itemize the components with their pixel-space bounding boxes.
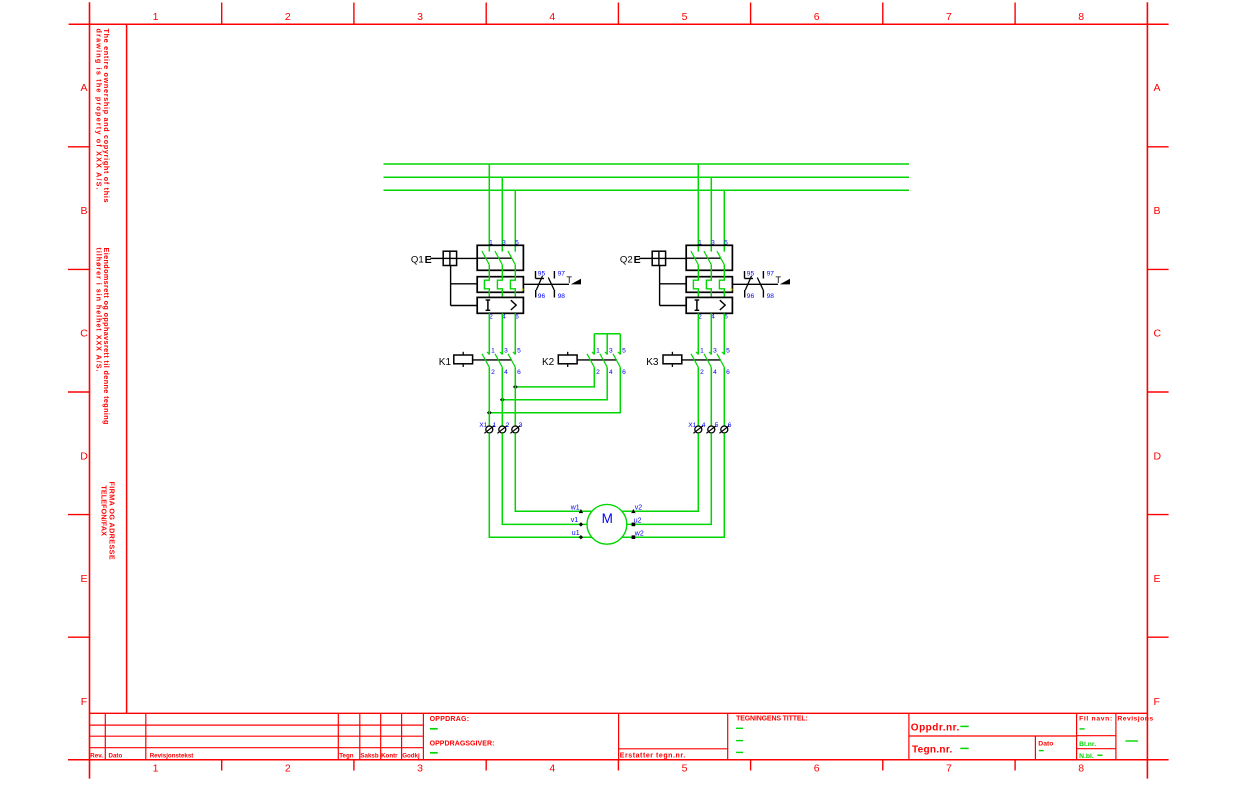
- title block: oppdrag value dash: [430, 728, 438, 730]
- frame: bottom ruler tick 3: [485, 760, 487, 771]
- wire: K2 top lead 1: [593, 334, 595, 355]
- wire: K3 bottom lead: [710, 367, 712, 426]
- breaker Q1 pole blade 3: [508, 251, 515, 265]
- svg-text:E: E: [425, 254, 432, 266]
- svg-text:3: 3: [417, 11, 423, 23]
- title block: bl.nr cell line: [1077, 735, 1116, 737]
- breaker Q2 main contact box: [686, 245, 732, 270]
- svg-text:D: D: [1154, 451, 1162, 463]
- contactor K3 contact 3-4 fixed tick: [709, 352, 711, 354]
- contactor K2 contact 1-2 blade: [587, 354, 594, 367]
- motor node v2: [631, 509, 635, 513]
- magnetic trip unit Q2 symbol I: [696, 300, 698, 310]
- breaker Q2 pole blade 2: [704, 251, 711, 265]
- svg-text:98: 98: [767, 293, 775, 300]
- svg-text:tilhører i sin helhet XXX A/S.: tilhører i sin helhet XXX A/S.: [94, 248, 103, 373]
- magnetic trip unit Q1 symbol >: [511, 300, 516, 310]
- contactor K1 contact 5-6 blade: [508, 354, 515, 367]
- wire: X1:4 to motor v2: [622, 433, 698, 511]
- contactor K1 contact 3-4 fixed tick: [500, 352, 502, 354]
- motor node w1: [579, 509, 583, 513]
- svg-text:Kontr: Kontr: [381, 752, 398, 759]
- svg-text:4: 4: [504, 369, 508, 376]
- svg-text:Q1: Q1: [411, 254, 424, 265]
- wire: K3 bottom lead: [697, 367, 699, 426]
- breaker Q2 trip bar: [686, 257, 721, 259]
- aux contact Q1 98 lead: [553, 290, 555, 298]
- svg-text:v2: v2: [635, 504, 643, 511]
- title block: n.bl value dash: [1097, 754, 1102, 756]
- svg-text:Tegn.nr.: Tegn.nr.: [912, 745, 953, 756]
- svg-text:A: A: [80, 82, 87, 94]
- breaker Q2 pole blade 1: [691, 251, 698, 265]
- breaker Q1 mechanism cross: [449, 251, 451, 265]
- wire: X1:5 to motor u2: [627, 433, 712, 524]
- title block: revision table column line 3: [337, 713, 339, 760]
- contactor K3 coil tick bottom: [671, 364, 673, 367]
- wire: Q2 aux contact line: [732, 283, 778, 285]
- wire: Q1 drop L2: [501, 177, 503, 251]
- svg-text:97: 97: [767, 271, 775, 278]
- svg-text:97: 97: [558, 271, 566, 278]
- svg-text:2: 2: [491, 369, 495, 376]
- title block: dato value dash: [1039, 750, 1044, 752]
- frame: left ruler tick 1: [68, 146, 90, 148]
- wire: K2 star bridge bus: [594, 333, 620, 335]
- svg-text:3: 3: [609, 348, 613, 355]
- magnetic trip unit Q2 symbol >: [720, 300, 725, 310]
- wire: X1:3 to motor w1: [515, 433, 591, 511]
- title block: tegn.nr value dash: [960, 747, 968, 749]
- motor node w2: [632, 535, 636, 539]
- wire: K3 top leads from Q2: [697, 313, 699, 354]
- frame: left ruler tick 4: [68, 514, 90, 516]
- svg-text:3: 3: [502, 239, 506, 246]
- wire: Q2 trip link to overload: [660, 283, 687, 285]
- svg-text:Godkj: Godkj: [402, 752, 420, 759]
- contactor K1 coil tick top: [462, 352, 464, 355]
- contactor K2 contact 5-6 blade: [613, 354, 620, 367]
- title block: revision table column line 4: [359, 713, 361, 760]
- svg-text:TELEFON/FAX: TELEFON/FAX: [100, 485, 109, 536]
- contactor K3 coil tick top: [671, 352, 673, 355]
- svg-text:T: T: [776, 275, 782, 285]
- contactor K1 contact 3-4 blade: [495, 354, 502, 367]
- svg-text:F: F: [1154, 696, 1160, 708]
- contactor K3 coil: [663, 355, 682, 364]
- title block: revision table column line 7: [422, 713, 424, 760]
- title block: dato cell divider: [1034, 736, 1036, 760]
- motor M1 circle: [587, 504, 627, 544]
- svg-text:T: T: [567, 275, 573, 285]
- wire: X1:2 to motor v1: [502, 433, 587, 524]
- svg-text:4: 4: [702, 422, 706, 429]
- svg-text:2: 2: [700, 369, 704, 376]
- motor node u1: [579, 535, 583, 539]
- frame: bottom ruler tick 7: [1014, 760, 1016, 771]
- svg-text:96: 96: [538, 293, 546, 300]
- contactor K1 linkage: [473, 359, 512, 361]
- svg-text:Q2: Q2: [620, 254, 633, 265]
- svg-text:C: C: [80, 328, 88, 340]
- svg-text:8: 8: [1078, 763, 1084, 775]
- breaker Q1 trip bar: [477, 257, 512, 259]
- svg-text:8: 8: [1078, 11, 1084, 23]
- svg-text:5: 5: [517, 348, 521, 355]
- bus L1: [384, 163, 910, 165]
- breaker Q2 mechanism box: [652, 251, 665, 265]
- svg-text:w2: w2: [634, 531, 644, 538]
- title block: oppdr.nr value dash: [960, 725, 968, 727]
- svg-text:1: 1: [596, 348, 600, 355]
- title block: oppdragsgiver value dash: [430, 752, 438, 754]
- wire: X1:1 to motor u1: [489, 433, 591, 537]
- title block: erstatter cell line: [619, 748, 728, 750]
- svg-text:w1: w1: [570, 504, 580, 511]
- svg-text:5: 5: [515, 239, 519, 246]
- svg-text:95: 95: [538, 271, 546, 278]
- title block: n.bl cell line: [1077, 748, 1116, 750]
- svg-text:TEGNINGENS TITTEL:: TEGNINGENS TITTEL:: [736, 716, 808, 723]
- svg-text:K2: K2: [542, 357, 555, 368]
- svg-text:7: 7: [946, 11, 952, 23]
- frame: right ruler tick 3: [1147, 391, 1168, 393]
- contactor K2 coil tick bottom: [567, 364, 569, 367]
- svg-text:1: 1: [700, 348, 704, 355]
- contactor K3 contact 5-6 blade: [717, 354, 724, 367]
- svg-text:5: 5: [715, 422, 719, 429]
- wire: Q1 actuator to mechanism: [430, 257, 443, 259]
- svg-text:K3: K3: [646, 357, 659, 368]
- svg-text:E: E: [1154, 573, 1161, 585]
- title block: revisjons value dash: [1126, 740, 1138, 742]
- svg-text:5: 5: [726, 348, 730, 355]
- breaker Q1 pole blade 1: [482, 251, 489, 265]
- frame: bottom ruler tick 4: [617, 760, 619, 771]
- aux contact Q2 95-96 blade: [745, 276, 751, 290]
- wire: K2 top lead 5: [619, 334, 621, 355]
- title block: revision table column line 2: [145, 713, 147, 760]
- svg-text:98: 98: [558, 293, 566, 300]
- title block: tittel dash 1: [736, 727, 743, 729]
- contactor K1 coil tick bottom: [462, 364, 464, 367]
- frame: right ruler tick 2: [1147, 268, 1168, 270]
- contactor K3 contact 1-2 blade: [691, 354, 698, 367]
- overload relay Q1 heater element 3: [510, 265, 515, 298]
- aux contact Q1 96 lead: [535, 290, 537, 298]
- svg-text:2: 2: [285, 763, 291, 775]
- wire: K1 bottom lead: [514, 367, 516, 426]
- contactor K3 contact 1-2 fixed tick: [696, 352, 698, 354]
- svg-text:4: 4: [609, 369, 613, 376]
- wire: Q2 trip link to magnetic unit: [660, 305, 687, 307]
- overload relay Q2 heater element 2: [706, 265, 711, 298]
- svg-text:1: 1: [493, 422, 497, 429]
- frame: top ruler tick 5: [750, 3, 752, 25]
- frame: right ruler line: [1146, 2, 1148, 778]
- svg-text:6: 6: [814, 763, 820, 775]
- svg-text:3: 3: [417, 763, 423, 775]
- terminal X1:3: [512, 426, 519, 433]
- svg-text:1: 1: [698, 239, 702, 246]
- svg-text:1: 1: [153, 763, 159, 775]
- wire: X1:6 to motor w2: [622, 433, 724, 537]
- breaker Q1 mechanism box: [443, 251, 456, 265]
- svg-text:5: 5: [622, 348, 626, 355]
- terminal X1:4: [695, 426, 702, 433]
- svg-text:OPPDRAG:: OPPDRAG:: [430, 716, 470, 723]
- wire: K1 bottom lead: [488, 367, 490, 426]
- svg-text:Fil navn:: Fil navn:: [1079, 715, 1113, 722]
- magnetic trip unit Q1 symbol I: [487, 300, 489, 310]
- svg-text:6: 6: [622, 369, 626, 376]
- wire: Q2 drop L3: [723, 190, 725, 251]
- frame: bottom ruler line: [68, 759, 1169, 761]
- junction dot B: [500, 397, 505, 402]
- contactor K2 contact 1-2 fixed tick: [592, 352, 594, 354]
- contactor K3 linkage: [682, 359, 721, 361]
- contactor K2 contact 5-6 fixed tick: [618, 352, 620, 354]
- svg-text:Bl.nr.: Bl.nr.: [1079, 741, 1096, 748]
- terminal X1:5: [708, 426, 715, 433]
- title block: tittel cell divider: [727, 713, 729, 760]
- frame: top ruler line: [69, 23, 1169, 25]
- wire: K2 top lead 3: [606, 334, 608, 355]
- wire: Q1 mechanism to main box: [457, 257, 478, 259]
- contactor K1 coil: [454, 355, 473, 364]
- frame: right ruler tick 4: [1147, 514, 1168, 516]
- terminal X1:6: [721, 426, 728, 433]
- aux contact Q1 97 lead: [553, 271, 555, 279]
- frame: left ruler tick 3: [68, 391, 90, 393]
- trip indicator Q2 wedge: [780, 279, 790, 285]
- svg-text:Dato: Dato: [109, 752, 123, 759]
- junction dot C: [487, 410, 492, 415]
- bus L3: [384, 189, 910, 191]
- svg-text:C: C: [1154, 328, 1162, 340]
- svg-text:2: 2: [596, 369, 600, 376]
- wire: Q1 drop L3: [514, 190, 516, 251]
- contactor K2 contact 3-4 fixed tick: [605, 352, 607, 354]
- contactor K1 contact 1-2 blade: [482, 354, 489, 367]
- wire: Q2 drop L2: [710, 177, 712, 251]
- svg-text:3: 3: [713, 348, 717, 355]
- svg-text:Oppdr.nr.: Oppdr.nr.: [911, 722, 960, 733]
- contactor K2 linkage: [577, 359, 617, 361]
- overload relay Q2 point mark: [730, 289, 732, 291]
- svg-text:v1: v1: [571, 517, 579, 524]
- wire: Q1 drop L1: [488, 164, 490, 252]
- contactor K3 contact 3-4 blade: [704, 354, 711, 367]
- svg-text:OPPDRAGSGIVER:: OPPDRAGSGIVER:: [430, 740, 495, 747]
- svg-text:Erstatter tegn.nr.: Erstatter tegn.nr.: [620, 752, 686, 759]
- overload relay Q1 thermal box: [477, 277, 523, 293]
- wire: Q1 trip link to overload: [451, 283, 478, 285]
- terminal X1:2: [499, 426, 506, 433]
- title block: revision table column line 5: [380, 713, 382, 760]
- svg-text:6: 6: [726, 369, 730, 376]
- svg-text:5: 5: [724, 239, 728, 246]
- svg-text:Saksb: Saksb: [360, 752, 378, 759]
- contactor K2 contact 3-4 blade: [600, 354, 607, 367]
- breaker Q2 mechanism cross: [658, 251, 660, 265]
- svg-text:96: 96: [747, 293, 755, 300]
- svg-text:N.bl.: N.bl.: [1079, 753, 1094, 760]
- aux contact Q2 98 lead: [762, 290, 764, 298]
- svg-text:95: 95: [747, 271, 755, 278]
- frame: bottom ruler tick 1: [221, 760, 223, 771]
- contactor K2 coil tick top: [567, 352, 569, 355]
- svg-text:3: 3: [711, 239, 715, 246]
- aux contact Q1 95 lead: [535, 271, 537, 279]
- svg-text:7: 7: [946, 763, 952, 775]
- svg-text:A: A: [1154, 82, 1161, 94]
- title block: fil navn cell divider: [1076, 713, 1078, 760]
- motor node v1: [579, 522, 583, 526]
- frame: bottom ruler tick 6: [882, 760, 884, 771]
- aux contact Q2 95 lead: [744, 271, 746, 279]
- aux contact Q2 97-98 blade: [757, 278, 763, 291]
- aux contact Q1 95-96 blade: [536, 276, 542, 290]
- wire: jumper K1-3 to K2-4: [502, 367, 607, 400]
- overload relay Q1 point mark: [521, 289, 523, 291]
- title block: revision table row line 3: [89, 747, 423, 749]
- wire: K1 bottom lead: [501, 367, 503, 426]
- magnetic trip unit Q2 box I>: [686, 297, 732, 313]
- svg-text:1: 1: [489, 239, 493, 246]
- breaker Q1 pole blade 2: [495, 251, 502, 265]
- aux contact Q2 96 lead: [744, 290, 746, 298]
- svg-text:Revisjons: Revisjons: [1117, 715, 1153, 722]
- svg-text:M: M: [602, 511, 613, 526]
- svg-text:1: 1: [153, 11, 159, 23]
- svg-text:5: 5: [682, 763, 688, 775]
- svg-text:D: D: [80, 451, 88, 463]
- contactor K3 contact 5-6 fixed tick: [722, 352, 724, 354]
- overload relay Q1 heater element 2: [497, 265, 502, 298]
- title block: revision table row line 1: [89, 724, 423, 726]
- svg-text:B: B: [80, 205, 87, 217]
- svg-text:4: 4: [549, 763, 555, 775]
- svg-text:F: F: [81, 696, 87, 708]
- title block: oppdr/tegn divider: [909, 735, 1077, 737]
- title block: erstatter cell divider: [618, 713, 620, 760]
- svg-text:6: 6: [728, 422, 732, 429]
- wire: Q1 aux contact line: [523, 283, 569, 285]
- frame: left ruler tick 2: [68, 268, 90, 270]
- wire: Q2 drop L1: [697, 164, 699, 252]
- svg-text:4: 4: [713, 369, 717, 376]
- svg-text:E: E: [80, 573, 87, 585]
- wire: K1 top leads from Q1: [488, 313, 490, 354]
- motor node u2: [632, 523, 636, 527]
- wire: K3 bottom lead: [723, 367, 725, 426]
- svg-text:6: 6: [517, 369, 521, 376]
- title block: top edge: [89, 712, 1147, 714]
- frame: top ruler tick 7: [1014, 3, 1016, 25]
- frame: top ruler tick 3: [485, 3, 487, 25]
- terminal X1:1: [486, 426, 493, 433]
- contactor K1 contact 1-2 fixed tick: [487, 352, 489, 354]
- title block: revisjons cell divider: [1115, 713, 1117, 760]
- frame: bottom ruler tick 5: [750, 760, 752, 771]
- svg-text:Dato: Dato: [1038, 741, 1053, 748]
- title block: tittel dash 3: [736, 751, 743, 753]
- junction dot A: [513, 385, 518, 390]
- bus L2: [384, 176, 910, 178]
- breaker Q2 pole blade 3: [717, 251, 724, 265]
- trip indicator Q1 wedge: [571, 279, 581, 285]
- title block: tittel dash 2: [736, 740, 743, 742]
- wire: jumper K1-1 to K2-6: [489, 367, 620, 413]
- frame: top ruler tick 4: [617, 3, 619, 25]
- svg-text:Tegn: Tegn: [339, 752, 354, 759]
- contactor K2 coil: [558, 355, 577, 364]
- svg-text:6: 6: [814, 11, 820, 23]
- title block: oppdr.nr cell divider: [908, 713, 910, 760]
- svg-text:3: 3: [519, 422, 523, 429]
- frame: bottom ruler tick 2: [353, 760, 355, 771]
- wire: Q2 mechanism to main box: [666, 257, 687, 259]
- overload relay Q1 heater element 1: [484, 265, 489, 298]
- svg-text:drawing is the property of XXX: drawing is the property of XXX A/S.: [94, 29, 103, 191]
- svg-text:K1: K1: [439, 357, 452, 368]
- aux contact Q2 97 lead: [762, 271, 764, 279]
- svg-text:2: 2: [506, 422, 510, 429]
- frame: top ruler tick 2: [353, 3, 355, 25]
- svg-text:E: E: [634, 254, 641, 266]
- wire: Q1 mechanism trip link vertical: [450, 266, 452, 306]
- frame: right ruler tick 1: [1147, 146, 1168, 148]
- svg-text:1: 1: [491, 348, 495, 355]
- frame: top ruler tick 1: [221, 3, 223, 25]
- svg-text:5: 5: [682, 11, 688, 23]
- contactor K1 contact 5-6 fixed tick: [513, 352, 515, 354]
- title block: fil navn value dash: [1080, 728, 1085, 730]
- svg-text:4: 4: [549, 11, 555, 23]
- title block: revision table row line 2: [89, 735, 423, 737]
- svg-text:Revisjonstekst: Revisjonstekst: [150, 752, 194, 759]
- overload relay Q2 heater element 3: [719, 265, 724, 298]
- frame: left ruler tick 5: [68, 636, 90, 638]
- svg-text:2: 2: [285, 11, 291, 23]
- frame: top ruler tick 6: [882, 3, 884, 25]
- frame: right ruler tick 5: [1147, 636, 1168, 638]
- overload relay Q2 thermal box: [686, 277, 732, 293]
- frame: inner border left: [126, 24, 128, 713]
- svg-text:Rev.: Rev.: [90, 752, 103, 759]
- wire: Q2 mechanism trip link vertical: [659, 266, 661, 306]
- breaker Q1 main contact box: [477, 245, 523, 270]
- frame: left ruler line: [89, 2, 91, 778]
- wire: Q2 actuator to mechanism: [639, 257, 652, 259]
- overload relay Q2 heater element 1: [693, 265, 698, 298]
- wire: jumper K1-5 to K2-2: [515, 367, 594, 387]
- wire: Q1 trip link to magnetic unit: [451, 305, 478, 307]
- title block: revision table column line 1: [104, 713, 106, 760]
- aux contact Q1 97-98 blade: [548, 278, 554, 291]
- svg-text:3: 3: [504, 348, 508, 355]
- magnetic trip unit Q1 box I>: [477, 297, 523, 313]
- svg-text:B: B: [1154, 205, 1161, 217]
- title block: revision table column line 6: [401, 713, 403, 760]
- svg-text:u1: u1: [572, 530, 580, 537]
